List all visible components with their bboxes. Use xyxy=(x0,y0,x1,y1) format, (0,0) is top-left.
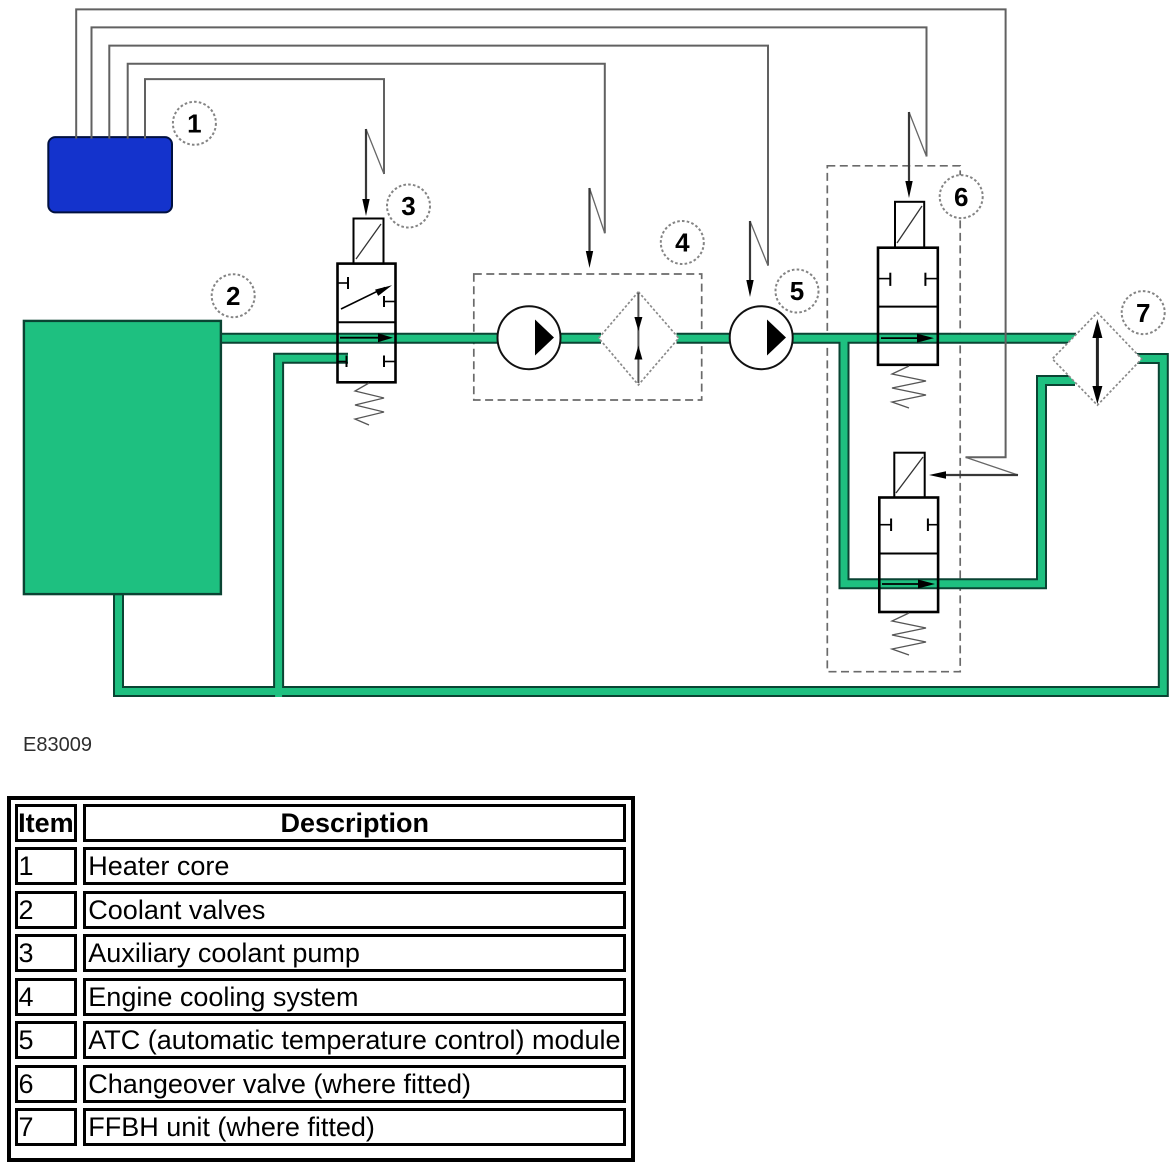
svg-text:1: 1 xyxy=(187,109,201,139)
ATC pump 5 xyxy=(730,306,793,369)
pipe: pump 4 to diamond 4 xyxy=(559,335,601,342)
figure id text xyxy=(23,735,92,755)
pipe: diamond 4 to pump 5 xyxy=(677,335,731,342)
pipe: pump 5 through valve 6 to diamond 7 xyxy=(793,335,1077,342)
label circle 5 xyxy=(776,270,819,313)
heater core (1) xyxy=(48,137,172,212)
valve 6 spring xyxy=(892,366,926,408)
valve 3 body xyxy=(338,264,396,383)
pipe: branch through lower changeover valve to diamond 7 xyxy=(844,338,1075,584)
pipe outline: engine box to valve 3 and pump xyxy=(218,333,498,344)
signal arrow to lower changeover valve xyxy=(929,457,1018,479)
svg-text:2: 2 xyxy=(226,281,240,311)
pipe bright core layer xyxy=(119,338,1164,697)
lower changeover valve solenoid xyxy=(894,453,924,498)
node: engine block (green box) xyxy=(24,321,221,594)
pipe outline: riser to valve 3 lower port xyxy=(279,358,348,697)
pipe outline: pump 5 through valve 6 to diamond 7 xyxy=(793,333,1077,344)
signal arrow to valve 6 xyxy=(905,112,926,198)
lower changeover valve spring xyxy=(892,613,926,655)
wire to changeover lower valve xyxy=(76,9,1005,457)
valve 3 spring xyxy=(355,383,384,425)
label circle 4 xyxy=(661,221,704,264)
dashed box 6 (changeover valve enclosure) xyxy=(827,166,960,672)
svg-text:5: 5 xyxy=(790,276,804,306)
pipe outline: pump 4 to diamond 4 xyxy=(559,333,601,344)
pipe dark outlines layer xyxy=(119,338,1164,697)
label circle 6 xyxy=(940,175,983,218)
label circle 1 xyxy=(173,102,216,145)
valve 6 solenoid xyxy=(895,202,924,248)
pipe: riser to valve 3 lower port xyxy=(279,358,348,697)
label circle 2 xyxy=(212,274,255,317)
label circle 3 xyxy=(387,185,430,228)
pipe: engine box to valve 3 and pump xyxy=(218,335,498,342)
pipe outline: diamond 7 return loop to engine box xyxy=(119,359,1164,692)
signal arrow to box 4 xyxy=(586,188,605,268)
valve 3 solenoid xyxy=(354,219,384,264)
wire to engine cooling box 4 xyxy=(128,64,605,234)
dashed box 4 (engine cooling system) xyxy=(474,274,702,400)
svg-text:4: 4 xyxy=(675,228,690,258)
svg-text:3: 3 xyxy=(401,191,415,221)
lower changeover valve body xyxy=(879,498,938,613)
FFBH diamond 7 xyxy=(1052,313,1141,406)
label circle 7 xyxy=(1122,291,1165,334)
svg-text:6: 6 xyxy=(954,182,968,212)
pipe outline: diamond 4 to pump 5 xyxy=(677,333,731,344)
wire to coolant valve 3 xyxy=(145,79,384,174)
valve 6 body xyxy=(878,248,938,365)
pipe: diamond 7 return loop to engine box xyxy=(119,359,1164,692)
signal arrow to pump 5 xyxy=(746,221,768,297)
pump 4 (auxiliary coolant pump circle) xyxy=(498,306,561,369)
svg-text:7: 7 xyxy=(1136,298,1150,328)
heat exchanger diamond 4 xyxy=(599,292,679,385)
signal arrow to valve 3 xyxy=(362,129,384,216)
wire to ATC pump 5 xyxy=(109,46,768,266)
legend table xyxy=(7,796,635,1162)
wire to changeover valve 6 xyxy=(92,27,927,156)
pipe outline: branch through lower changeover valve to diamond 7 xyxy=(844,338,1075,584)
